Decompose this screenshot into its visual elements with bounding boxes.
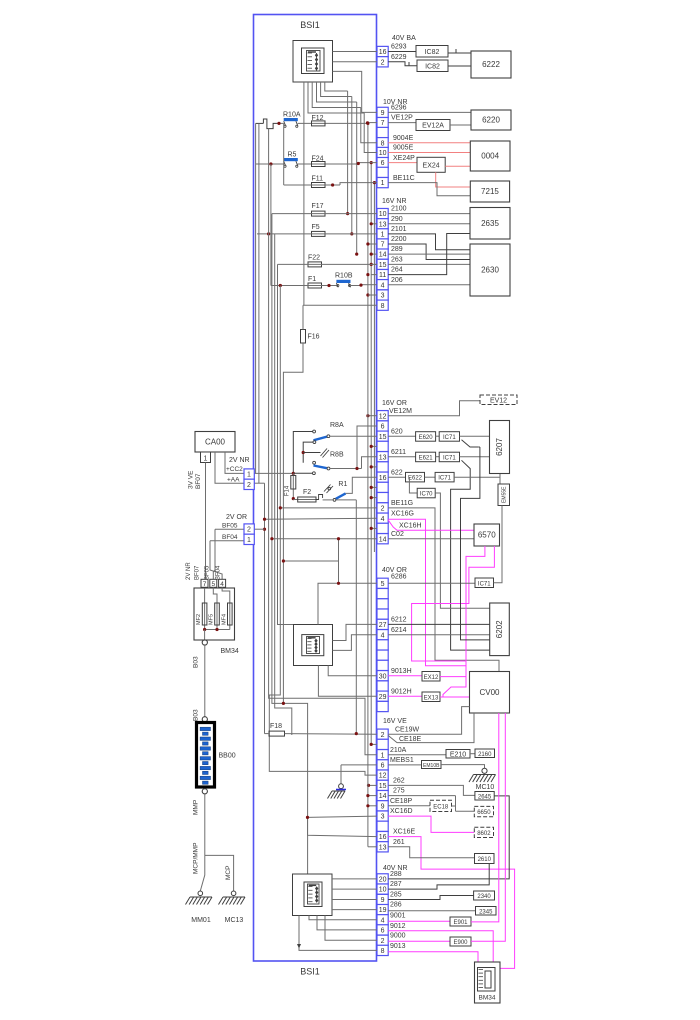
svg-text:2340: 2340 — [477, 894, 491, 900]
wire +CC2 — [225, 452, 244, 473]
svg-text:2V OR: 2V OR — [226, 514, 247, 521]
vertical net H — [351, 97, 353, 234]
wire to pin 15 262 — [368, 784, 377, 786]
svg-text:BE11G: BE11G — [391, 500, 413, 507]
wire MCP branch — [205, 855, 234, 891]
wire middle block to pin 4 — [333, 635, 378, 651]
svg-text:F18: F18 — [270, 723, 282, 730]
wire 288 — [388, 796, 509, 879]
connector E900 — [450, 937, 471, 946]
unit CA00 — [195, 432, 235, 453]
svg-text:289: 289 — [391, 246, 403, 253]
svg-text:BF04: BF04 — [216, 565, 222, 580]
svg-text:E210: E210 — [450, 751, 466, 758]
wire bottom block to pin row 2 — [332, 899, 377, 901]
wire E622-IC71 — [425, 476, 436, 478]
wire BF05 inside — [254, 528, 264, 530]
unit EM55E — [498, 484, 510, 506]
svg-text:2345: 2345 — [479, 909, 493, 915]
wire XC16D — [388, 816, 474, 832]
svg-text:1: 1 — [381, 232, 385, 239]
svg-text:16: 16 — [379, 834, 387, 841]
svg-text:16V VE: 16V VE — [383, 718, 407, 725]
wire bottom block to pin 8 (9013) — [299, 916, 377, 951]
wire F16 — [302, 305, 304, 329]
connector 2345 — [476, 907, 497, 916]
wire F1 R10B row to pin 4 — [271, 285, 337, 287]
wire 2200 — [388, 244, 470, 260]
unit 6222 — [471, 51, 511, 78]
svg-text:2: 2 — [381, 506, 385, 513]
connector E621 — [416, 452, 436, 462]
wire 9013H — [388, 675, 422, 677]
wire CE18E — [388, 713, 474, 743]
wire 9012H — [388, 695, 422, 697]
svg-text:CE18P: CE18P — [390, 798, 413, 805]
svg-text:CV00: CV00 — [479, 688, 500, 697]
svg-text:210A: 210A — [390, 747, 407, 754]
svg-text:13: 13 — [379, 844, 387, 851]
svg-text:622: 622 — [391, 469, 403, 476]
svg-text:E622: E622 — [408, 476, 423, 482]
wire XC16E — [388, 837, 514, 969]
vertical net E — [371, 163, 377, 275]
wire EX13 to CV00 — [440, 696, 470, 698]
relay block top — [293, 41, 333, 83]
connector IC82 (2) — [417, 60, 448, 72]
svg-text:IC71: IC71 — [478, 581, 491, 587]
fuse MF2 — [204, 588, 206, 630]
pin 1 of CA00 — [201, 452, 211, 463]
pink 6570 out 1 — [443, 546, 485, 697]
svg-text:286: 286 — [390, 902, 402, 909]
svg-text:1: 1 — [247, 537, 251, 544]
wire 206 — [388, 284, 470, 286]
svg-text:IC71: IC71 — [443, 435, 456, 441]
wire 9005E — [388, 152, 471, 154]
svg-text:6211: 6211 — [391, 449, 406, 456]
wire +AA from pin2 — [254, 482, 264, 484]
connector section 40V BA — [377, 46, 388, 56]
svg-text:R5: R5 — [288, 152, 297, 159]
wire 622 — [388, 476, 405, 478]
svg-text:BSI1: BSI1 — [300, 967, 320, 977]
wire BE11G — [388, 508, 499, 672]
wire 622 to node — [454, 476, 500, 478]
terminal circle — [202, 640, 207, 645]
svg-text:BF07: BF07 — [195, 473, 202, 489]
wire CE18P stub — [368, 805, 377, 807]
wire VE12P — [388, 122, 416, 124]
svg-text:6296: 6296 — [391, 105, 407, 112]
wire IC82 to 6222 — [448, 52, 471, 54]
wire 9012 — [388, 931, 493, 962]
wire IC82 to 6222 — [448, 65, 471, 67]
svg-text:263: 263 — [391, 257, 403, 264]
svg-text:290: 290 — [391, 216, 403, 223]
svg-text:13: 13 — [379, 221, 387, 228]
wire 264 — [388, 234, 470, 275]
svg-text:4: 4 — [381, 516, 385, 523]
wire EX24 to 0004 — [445, 165, 470, 167]
wire IC71 to 6207 — [460, 456, 490, 458]
unit CV00 — [470, 672, 510, 714]
connector section 16V VE — [377, 729, 388, 739]
connector E622 — [406, 472, 425, 482]
svg-text:+AA: +AA — [227, 477, 240, 484]
svg-text:VE12M: VE12M — [389, 408, 412, 415]
wire (left bundle 6) — [278, 264, 294, 624]
wire 9001 — [388, 920, 450, 922]
svg-text:EX12: EX12 — [424, 675, 439, 681]
svg-text:EM55E: EM55E — [502, 486, 508, 503]
svg-text:30: 30 — [379, 673, 387, 680]
branch contact 6211 — [451, 460, 490, 650]
fuse unit BM34 pins 7 5 4 — [201, 579, 208, 587]
unit 0004 — [470, 141, 510, 171]
wire 290 — [388, 223, 470, 225]
vertical net I — [356, 102, 358, 254]
svg-text:C02: C02 — [391, 531, 404, 538]
svg-text:8: 8 — [381, 948, 385, 955]
fuse MF4 — [222, 587, 230, 629]
connector IC71 (3) — [435, 472, 454, 482]
wire bottom block to pin 4 (9001) — [309, 916, 377, 920]
svg-text:6222: 6222 — [482, 60, 500, 69]
branch contact 620 — [462, 440, 479, 447]
wire C02 node down to 6286 net — [338, 539, 340, 584]
svg-text:IC82: IC82 — [425, 49, 440, 56]
connector EX24 — [417, 157, 445, 172]
svg-text:XE24P: XE24P — [393, 155, 415, 162]
svg-text:BE11C: BE11C — [393, 175, 415, 182]
branch into 6202 (B) — [479, 446, 480, 448]
svg-text:16: 16 — [379, 475, 387, 482]
unit 6570 — [474, 524, 500, 546]
wire BF04 — [210, 540, 244, 542]
svg-text:40V BA: 40V BA — [392, 35, 416, 42]
wire MEBS1 — [388, 764, 421, 766]
wire C02 from left bundle — [272, 538, 377, 540]
svg-text:7: 7 — [381, 120, 385, 127]
wire 9004E — [388, 142, 471, 144]
wire 6212 — [388, 623, 490, 625]
svg-text:16V OR: 16V OR — [382, 400, 407, 407]
svg-text:2: 2 — [247, 527, 251, 534]
wire 6286 stub to middle block — [318, 583, 377, 624]
svg-text:9001: 9001 — [390, 912, 406, 919]
vertical net C (to pin 10) — [364, 113, 377, 153]
svg-text:2101: 2101 — [391, 226, 407, 233]
svg-text:9012H: 9012H — [391, 688, 412, 695]
svg-text:F22: F22 — [308, 255, 320, 262]
BM34 internal bus — [205, 629, 230, 631]
svg-text:14: 14 — [379, 252, 387, 259]
svg-text:CE18E: CE18E — [399, 736, 422, 743]
svg-text:5: 5 — [381, 581, 385, 588]
unit 2635 — [470, 208, 510, 240]
shield connector symbol — [263, 119, 279, 129]
svg-text:3V VE: 3V VE — [188, 470, 195, 489]
svg-text:6570: 6570 — [478, 531, 496, 540]
svg-text:6286: 6286 — [391, 573, 407, 580]
svg-text:B03: B03 — [193, 709, 200, 721]
step symbol — [316, 495, 322, 500]
connector EV12A — [416, 120, 450, 131]
unit 6207 — [490, 421, 510, 474]
wire XE24P — [388, 162, 417, 164]
svg-text:7: 7 — [381, 242, 385, 249]
wire F18 row to pin 2 — [265, 733, 270, 735]
wire CE18P — [388, 805, 430, 807]
svg-text:2630: 2630 — [481, 266, 499, 275]
svg-text:2V NR: 2V NR — [186, 562, 192, 580]
wire XC16H — [388, 520, 474, 530]
connector EM10B — [422, 761, 442, 769]
svg-text:16V NR: 16V NR — [382, 198, 407, 205]
svg-text:9005E: 9005E — [393, 145, 414, 152]
vertical net D (to 16V NR pins) — [367, 123, 369, 305]
wire bottom block to pin row 3 — [332, 909, 377, 911]
svg-text:IC71: IC71 — [443, 455, 456, 461]
svg-text:F1: F1 — [308, 276, 316, 283]
svg-text:EX24: EX24 — [423, 162, 440, 169]
svg-text:15: 15 — [379, 783, 387, 790]
svg-text:EM10B: EM10B — [423, 763, 440, 769]
svg-text:BSI1: BSI1 — [300, 20, 320, 30]
svg-text:6: 6 — [381, 763, 385, 770]
svg-text:14: 14 — [379, 536, 387, 543]
wire 261 — [388, 847, 474, 858]
wire MMP — [204, 794, 206, 856]
svg-text:7: 7 — [203, 581, 207, 588]
svg-text:287: 287 — [390, 881, 402, 888]
wire 275 — [388, 795, 455, 797]
wire 2V NR +CC2 into F14 net — [254, 472, 293, 474]
connector EX12 — [422, 672, 440, 682]
wire R10A left drop to F11 — [283, 123, 285, 185]
shield mark — [455, 49, 457, 53]
wire 285 — [388, 896, 473, 900]
ground inside BSI — [341, 764, 377, 766]
svg-text:3: 3 — [381, 814, 385, 821]
wire (left bundle 4) — [272, 214, 308, 874]
svg-text:2: 2 — [381, 938, 385, 945]
wire 261 stub — [368, 846, 377, 848]
svg-text:E620: E620 — [419, 435, 434, 441]
wire MCP/MMP to MM01 — [200, 855, 205, 891]
connector E210 — [446, 750, 470, 759]
fuse MF5 — [213, 587, 217, 629]
wire (left bundle 2) — [258, 123, 260, 483]
svg-text:2160: 2160 — [478, 752, 492, 758]
wire 287 — [388, 864, 489, 890]
svg-text:VE12P: VE12P — [391, 115, 413, 122]
svg-text:285: 285 — [390, 892, 402, 899]
svg-text:EV12A: EV12A — [422, 123, 444, 130]
BSI left connector B — [244, 524, 254, 534]
svg-text:F14: F14 — [285, 485, 291, 496]
connector section 16V NR — [377, 208, 388, 218]
svg-text:BF05: BF05 — [205, 565, 211, 580]
svg-text:6207: 6207 — [495, 438, 504, 456]
svg-text:262: 262 — [393, 778, 405, 785]
svg-text:F2: F2 — [303, 489, 311, 496]
wire 6207 to EM55E — [499, 474, 501, 485]
svg-text:F11: F11 — [312, 176, 324, 183]
wire BF07 vertical — [205, 463, 207, 580]
wire EM10B to MC10 — [441, 765, 485, 769]
svg-text:MC13: MC13 — [225, 917, 244, 924]
svg-text:288: 288 — [390, 871, 402, 878]
svg-text:1: 1 — [204, 456, 208, 463]
svg-text:BM34: BM34 — [221, 648, 239, 655]
connector section 16V OR — [377, 411, 388, 421]
junction dots 16V NR — [370, 263, 373, 266]
svg-text:BF04: BF04 — [222, 534, 238, 541]
svg-text:14: 14 — [379, 793, 387, 800]
wire R5 row to F24 and pin 6 — [256, 163, 284, 165]
svg-text:E901: E901 — [453, 920, 468, 926]
svg-text:1: 1 — [381, 180, 385, 187]
svg-text:BF07: BF07 — [195, 565, 201, 580]
wire IC71 to EM55E — [494, 506, 503, 583]
svg-text:9000: 9000 — [390, 932, 406, 939]
svg-text:XC16G: XC16G — [391, 510, 414, 517]
svg-text:5: 5 — [211, 581, 215, 588]
node vertical 275/CE18P — [455, 796, 457, 812]
pink 6570 out 2 — [412, 546, 495, 661]
wire 6211 — [388, 456, 415, 458]
svg-text:R8B: R8B — [330, 452, 344, 459]
svg-text:10: 10 — [379, 211, 387, 218]
arrow terminal — [297, 944, 301, 949]
svg-text:R1: R1 — [338, 481, 347, 488]
svg-text:261: 261 — [393, 839, 405, 846]
svg-text:16: 16 — [379, 49, 387, 56]
wire middle block to pin 27 — [333, 624, 378, 640]
wire CE19W — [388, 707, 469, 735]
wire 262 — [388, 785, 475, 795]
svg-text:8: 8 — [381, 140, 385, 147]
relay coil R8 — [303, 452, 320, 454]
ground MC10 — [482, 768, 487, 773]
svg-text:4: 4 — [381, 917, 385, 924]
svg-text:6: 6 — [381, 424, 385, 431]
fuse unit BM34 top — [194, 588, 235, 640]
connector EV12 (dashed) — [480, 395, 517, 405]
wire (left bundle 3) — [269, 129, 377, 755]
connector 6650 (dashed) — [474, 806, 493, 816]
wire R8A lower contact — [313, 441, 316, 444]
svg-text:6220: 6220 — [482, 116, 500, 125]
svg-text:XC16E: XC16E — [393, 829, 416, 836]
svg-text:MF2: MF2 — [196, 614, 202, 625]
battery unit BM34 — [475, 962, 501, 1003]
wire 6214 — [388, 634, 490, 636]
wire E621-IC71 — [436, 456, 440, 458]
svg-text:2: 2 — [381, 59, 385, 66]
svg-text:9012: 9012 — [390, 923, 406, 930]
wire bottom block to pin row 1 — [332, 888, 377, 890]
svg-text:27: 27 — [379, 622, 387, 629]
connector section 40V OR — [377, 578, 388, 588]
wire EC18 node — [452, 805, 456, 807]
wire bottom block to pin 6 (9012) — [317, 916, 377, 930]
unit 6220 — [471, 110, 511, 130]
svg-text:IC70: IC70 — [420, 492, 433, 498]
svg-text:4: 4 — [381, 282, 385, 289]
svg-text:1: 1 — [381, 752, 385, 759]
wire R8B out to pins 6 13 — [330, 468, 362, 470]
wire (left bundle 7) — [269, 286, 377, 776]
connector EC18 (dashed) — [430, 800, 452, 811]
svg-text:F17: F17 — [312, 203, 324, 210]
svg-text:7215: 7215 — [481, 187, 499, 196]
svg-text:4: 4 — [220, 581, 224, 588]
svg-text:MC10: MC10 — [476, 784, 495, 791]
wire middle block to pin 29 — [318, 666, 377, 697]
connector EX13 — [422, 692, 440, 702]
svg-text:19: 19 — [379, 907, 387, 914]
svg-text:EV12: EV12 — [490, 397, 507, 404]
wire pin 8 row to F16 — [303, 304, 377, 306]
svg-text:4: 4 — [381, 632, 385, 639]
svg-text:6202: 6202 — [495, 620, 504, 638]
wire 286 — [388, 910, 475, 912]
svg-text:MCP: MCP — [225, 866, 232, 880]
svg-text:E621: E621 — [419, 455, 434, 461]
svg-text:B03: B03 — [193, 656, 200, 668]
svg-text:6214: 6214 — [391, 627, 407, 634]
wire 263 — [388, 263, 470, 265]
svg-text:3: 3 — [381, 293, 385, 300]
terminal circle battery top — [202, 717, 207, 722]
connector 2645 — [475, 792, 494, 801]
relay block bottom — [293, 874, 333, 916]
wire 2100 — [388, 213, 470, 215]
ground MC13 — [231, 891, 236, 896]
wire (left bundle 5) — [274, 234, 276, 552]
stub pins sec4 empty — [371, 445, 377, 447]
wire bottom block to pin 2 (9000) — [325, 916, 377, 941]
wire 6293 — [388, 51, 416, 53]
svg-text:11: 11 — [379, 272, 386, 279]
wire left bundle to 6286 net — [283, 560, 338, 562]
connector section 40V NR — [377, 874, 388, 884]
wire 2V OR net to pin4 — [264, 483, 266, 733]
wire EV12A to 6220 — [450, 124, 471, 126]
wire BE11G from left bundle — [280, 507, 377, 509]
wire bottom block to pin row 0 — [332, 878, 377, 880]
svg-text:6: 6 — [381, 928, 385, 935]
svg-text:15: 15 — [379, 262, 387, 269]
wire R1 to F18 net — [355, 500, 357, 734]
svg-text:CA00: CA00 — [205, 438, 226, 447]
svg-text:264: 264 — [391, 267, 403, 274]
svg-text:IC71: IC71 — [438, 476, 451, 482]
connector IC71 (4) — [475, 578, 494, 588]
stub pins 13 7 14 — [371, 223, 377, 225]
svg-text:8602: 8602 — [477, 831, 491, 837]
wire R1 out to pin 16 — [346, 477, 377, 493]
connector E620 — [416, 432, 436, 442]
svg-text:9004E: 9004E — [393, 135, 414, 142]
svg-text:2V NR: 2V NR — [229, 457, 250, 464]
wire 6229 — [388, 62, 417, 66]
svg-text:MEBS1: MEBS1 — [390, 757, 414, 764]
svg-text:MCP/MMP: MCP/MMP — [193, 843, 200, 874]
